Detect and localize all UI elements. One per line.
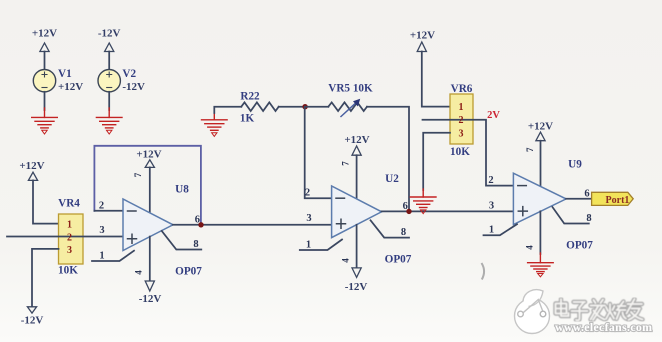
wire U8 output to U2 input <box>173 224 332 226</box>
wire junction to VR5 <box>306 106 329 108</box>
power arrow above VR6 <box>417 42 426 52</box>
watermark chinese text 电子发烧友 <box>556 299 643 320</box>
ground under V2 <box>96 108 122 134</box>
feedback wire rectangle of U8 <box>94 146 200 225</box>
ground left of R22 <box>202 112 228 136</box>
svg-text:7: 7 <box>341 161 351 166</box>
svg-text:1: 1 <box>306 240 311 251</box>
svg-text:1: 1 <box>67 220 72 231</box>
svg-text:1: 1 <box>489 225 494 236</box>
svg-text:OP07: OP07 <box>175 266 202 278</box>
wire R22 to junction <box>279 106 306 108</box>
svg-text:+12V: +12V <box>136 149 161 161</box>
ground below U9 <box>528 253 554 277</box>
svg-text:U2: U2 <box>385 173 399 185</box>
watermark logo circle <box>515 290 550 334</box>
svg-text:8: 8 <box>193 239 198 250</box>
wire pin4 of U2 <box>356 225 358 268</box>
minus mark of U9 <box>518 185 527 187</box>
minus mark of U2 <box>336 197 345 199</box>
power arrow -12V below U8 <box>145 281 154 291</box>
svg-text:8: 8 <box>401 227 406 238</box>
potentiometer VR5 <box>328 102 367 111</box>
wire pin4 of U9 to ground <box>539 211 541 254</box>
svg-text:-12V: -12V <box>21 315 44 327</box>
svg-text:2: 2 <box>67 233 72 244</box>
svg-text:VR4: VR4 <box>58 198 80 210</box>
wire pin7 of U9 <box>540 141 542 187</box>
power arrow above U2 <box>352 146 361 155</box>
svg-text:+12V: +12V <box>344 134 369 146</box>
svg-text:10K: 10K <box>450 146 470 158</box>
power arrow -12V below U2 <box>352 268 361 278</box>
power arrow above V1 <box>40 43 49 52</box>
wire arrow to V1 <box>44 52 46 70</box>
svg-text:+12V: +12V <box>58 81 83 93</box>
junction at U8 output <box>198 222 203 227</box>
svg-text:VR5 10K: VR5 10K <box>328 83 373 95</box>
ground below VR6 pin3 <box>410 189 436 214</box>
svg-text:3: 3 <box>99 225 104 236</box>
wire pin1 stub of U8 <box>92 251 134 261</box>
op-amp U8 <box>123 199 173 251</box>
svg-text:+12V: +12V <box>19 160 44 172</box>
svg-text:+12V: +12V <box>410 30 435 42</box>
op-amp U9 <box>513 173 566 224</box>
svg-text:-12V: -12V <box>122 81 145 93</box>
svg-text:www.elecfans.com: www.elecfans.com <box>555 320 652 334</box>
svg-text:7: 7 <box>525 147 535 152</box>
plus mark of U9 <box>518 207 527 216</box>
wire pin1 stub of U9 <box>484 224 518 235</box>
svg-text:+12V: +12V <box>528 121 553 133</box>
svg-text:6: 6 <box>584 188 589 199</box>
voltage source V1 <box>33 70 55 92</box>
wire VR6 pin2 wiper to U9 inverting input <box>423 120 514 186</box>
wire +12V to VR6 pin1 <box>422 52 450 107</box>
wire ground to R22 <box>214 107 241 113</box>
svg-text:7: 7 <box>133 172 143 177</box>
svg-text:3: 3 <box>67 245 72 256</box>
svg-text:-12V: -12V <box>139 293 162 305</box>
svg-text:Port1: Port1 <box>606 195 630 206</box>
resistor R22 <box>241 102 278 111</box>
svg-text:2: 2 <box>459 115 464 126</box>
junction node between R22 and VR5 <box>302 104 307 109</box>
wire junction down to U2 inverting input <box>305 107 332 199</box>
watermark stray mark <box>482 263 485 280</box>
wire U2 output to U9 input <box>382 210 514 212</box>
wire pin8 stub of U9 <box>553 207 589 223</box>
svg-text:1: 1 <box>459 102 464 113</box>
svg-text:3: 3 <box>306 213 311 224</box>
power arrow above U8 <box>145 160 154 168</box>
wire V2 to ground <box>108 92 110 110</box>
wire U9 output to Port1 <box>566 198 592 200</box>
wire arrow to V2 <box>108 52 110 70</box>
svg-text:6: 6 <box>403 201 408 212</box>
power arrow above U9 <box>536 132 545 141</box>
wire pin4 of U8 <box>149 237 151 281</box>
svg-text:10K: 10K <box>58 265 78 277</box>
voltage source V2 <box>98 70 120 92</box>
op-amp U2 <box>332 186 382 238</box>
svg-text:2: 2 <box>305 188 310 199</box>
svg-text:3: 3 <box>489 201 494 212</box>
plus mark of U8 <box>128 234 137 243</box>
svg-text:1K: 1K <box>240 113 255 125</box>
svg-text:R22: R22 <box>240 91 260 103</box>
svg-text:3: 3 <box>459 129 464 140</box>
svg-text:U9: U9 <box>568 159 582 171</box>
wire VR4 pin3 to -12V <box>32 249 59 307</box>
svg-text:V2: V2 <box>122 68 136 80</box>
svg-text:6: 6 <box>195 214 200 225</box>
wire pin8 stub of U2 <box>371 220 410 237</box>
power arrow above VR4 <box>28 172 37 180</box>
svg-text:OP07: OP07 <box>385 254 412 266</box>
plus mark of U2 <box>337 219 346 228</box>
wire pin7 of U8 <box>149 167 151 212</box>
svg-text:+12V: +12V <box>32 28 57 40</box>
svg-text:2: 2 <box>488 175 493 186</box>
wire VR6 pin3 to ground <box>423 133 450 190</box>
minus mark of U8 <box>128 210 137 212</box>
potentiometer VR4 body <box>59 214 84 264</box>
potentiometer VR6 body <box>450 94 473 144</box>
svg-text:VR6: VR6 <box>451 83 473 95</box>
wire V1 to ground <box>44 92 46 110</box>
terminal Port1 <box>592 192 634 205</box>
power arrow -12V below VR4 <box>27 307 36 313</box>
svg-text:1: 1 <box>99 251 104 262</box>
svg-text:2V: 2V <box>487 110 500 121</box>
wire pin1 stub of U2 <box>300 240 342 251</box>
svg-text:U8: U8 <box>175 184 189 196</box>
svg-text:8: 8 <box>586 213 591 224</box>
svg-text:V1: V1 <box>58 68 72 80</box>
wire VR5 to U2 output (feedback) <box>367 107 409 212</box>
power arrow above V2 <box>105 43 114 52</box>
wire U8 inverting input pin2 <box>94 210 123 212</box>
svg-text:OP07: OP07 <box>566 240 593 252</box>
wire +12V to VR4 pin1 <box>33 180 59 223</box>
svg-text:-12V: -12V <box>98 28 121 40</box>
wire pin7 of U2 <box>356 155 358 199</box>
wire pin8 stub of U8 <box>162 231 202 250</box>
junction at U2 output <box>406 209 411 214</box>
svg-text:4: 4 <box>341 258 351 263</box>
ground under V1 <box>32 108 58 134</box>
wire VR4 pin2 to U8 noninverting input <box>7 236 123 238</box>
svg-text:2: 2 <box>99 200 104 211</box>
svg-text:4: 4 <box>134 270 144 275</box>
svg-text:-12V: -12V <box>345 281 368 293</box>
wiper arrow of VR5 <box>341 102 357 117</box>
svg-text:4: 4 <box>525 245 535 250</box>
